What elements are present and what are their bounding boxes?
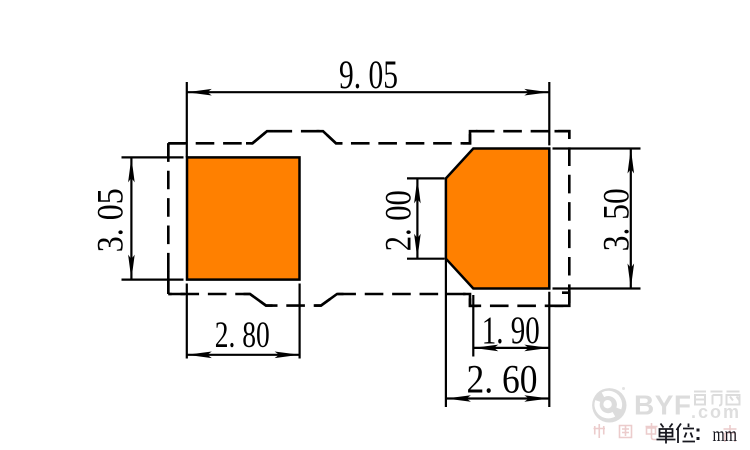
arrow 9.05 left [187, 89, 212, 96]
dim line 1.90 [473, 347, 549, 349]
arrow 3.50 bottom [628, 264, 635, 289]
unit label colon [697, 429, 700, 441]
arrow 2.00 top [414, 178, 421, 203]
extension lines 2.00 [407, 178, 445, 258]
arrow 2.00 bottom [414, 234, 421, 259]
arrow 3.05 top [128, 157, 135, 182]
dim line 2.60 [446, 397, 549, 399]
svg-text:2. 60: 2. 60 [467, 357, 538, 402]
dim line 3.50 [630, 149, 632, 289]
pad P2 right [446, 149, 549, 289]
svg-text:2. 00: 2. 00 [378, 190, 419, 251]
svg-text:mm: mm [713, 422, 738, 446]
watermark baifang boxes [694, 392, 740, 406]
svg-text:9. 05: 9. 05 [339, 52, 398, 97]
svg-text:1. 90: 1. 90 [482, 309, 540, 352]
arrow 2.80 right [275, 352, 300, 359]
dim line 2.00 [416, 178, 418, 258]
unit label wei [677, 424, 696, 444]
pad P1 left [187, 157, 300, 279]
dim line 9.05 [187, 91, 550, 93]
svg-text:3. 50: 3. 50 [596, 188, 637, 251]
arrow 2.80 left [187, 352, 212, 359]
extension lines 3.05 [122, 157, 184, 279]
arrow 2.60 left [446, 395, 471, 402]
outline solid step bottom [168, 271, 569, 306]
extension lines 9.05 [187, 82, 550, 157]
arrow 1.90 left [473, 345, 498, 352]
wire outline left edge dashed [167, 143, 170, 294]
watermark pink chars [594, 423, 737, 442]
extension lines 1.90 [472, 295, 474, 357]
body outline dashed [168, 131, 569, 306]
dim line 3.05 [130, 157, 132, 279]
svg-text:2. 80: 2. 80 [215, 315, 270, 356]
extension lines 3.50 [553, 149, 641, 289]
arrow 1.90 right [524, 345, 549, 352]
outline solid step top [168, 131, 569, 159]
arrow 3.05 bottom [128, 255, 135, 280]
svg-text:BYF: BYF [634, 390, 692, 421]
watermark logo circle [592, 387, 626, 422]
arrow 2.60 right [524, 395, 549, 402]
unit label dan [657, 424, 676, 444]
extension lines 2.60 [446, 259, 549, 407]
svg-text:3. 05: 3. 05 [90, 188, 131, 252]
dim line 2.80 [187, 354, 300, 356]
arrow 3.50 top [628, 149, 635, 174]
extension lines 2.80 [187, 284, 300, 359]
arrow 9.05 right [524, 89, 549, 96]
